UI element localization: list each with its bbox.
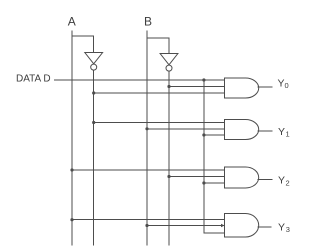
svg-text:A: A bbox=[68, 15, 76, 29]
svg-text:Y: Y bbox=[278, 126, 285, 138]
arrowhead artifact on Y3 middle input bbox=[221, 224, 225, 227]
junction D Y2 bbox=[202, 181, 205, 184]
wire B tap to Y3 bbox=[147, 225, 225, 227]
wire Y3 output bbox=[258, 226, 272, 228]
wire Y2 output bbox=[258, 178, 273, 180]
svg-text:2: 2 bbox=[286, 178, 290, 187]
wire A-bar tap to Y0 bbox=[94, 92, 225, 94]
wire A tap to Y2 bbox=[72, 169, 225, 171]
junction D tap bbox=[202, 78, 205, 81]
node Y2 label bbox=[278, 175, 290, 188]
svg-text:B: B bbox=[144, 15, 152, 29]
wire A tap to Y3 bbox=[72, 219, 225, 221]
wire A branch to inverter input bbox=[72, 36, 94, 53]
wire B vertical bbox=[146, 31, 148, 246]
svg-text:1: 1 bbox=[286, 129, 290, 138]
and-gate U3 (Y0) bbox=[225, 78, 259, 98]
inverter U1 (NOT gate on A) bbox=[85, 53, 103, 71]
wire A-bar tap to Y1 bbox=[94, 122, 225, 124]
wire B branch to inverter input bbox=[147, 38, 169, 54]
junction D Y1 bbox=[202, 133, 205, 136]
node Y0 label bbox=[278, 78, 289, 90]
wire B-bar tap to Y0 bbox=[169, 86, 225, 88]
wire B tap to Y1 bbox=[147, 128, 225, 130]
wire D tap to Y1 bbox=[204, 134, 225, 136]
junction A-bar Y1 bbox=[92, 121, 95, 124]
junction B-bar Y0 bbox=[167, 85, 170, 88]
wire D vertical distribution bbox=[204, 80, 225, 233]
wire D tap to Y2 bbox=[204, 182, 225, 184]
wire A vertical bbox=[71, 31, 73, 246]
junction A Y2 bbox=[70, 168, 73, 171]
node Y1 label bbox=[278, 126, 290, 138]
wire Y0 output bbox=[258, 86, 273, 88]
junction B Y3 bbox=[145, 224, 148, 227]
junction A-bar Y0 bbox=[92, 91, 95, 94]
svg-text:0: 0 bbox=[285, 81, 289, 90]
junction B-bar Y2 bbox=[167, 175, 170, 178]
junction B Y1 bbox=[145, 127, 148, 130]
wire B-bar vertical bbox=[168, 71, 170, 245]
svg-text:Y: Y bbox=[278, 175, 285, 187]
and-gate U5 (Y2) bbox=[225, 167, 259, 188]
svg-text:DATA D: DATA D bbox=[16, 74, 51, 85]
wire DATA D horizontal bbox=[54, 79, 225, 81]
svg-text:Y: Y bbox=[278, 222, 285, 234]
junction A Y3 bbox=[70, 218, 73, 221]
wire B-bar tap to Y2 bbox=[169, 176, 225, 178]
wire Y1 output bbox=[258, 130, 273, 132]
wire A-bar vertical bbox=[93, 70, 95, 245]
and-gate U4 (Y1) bbox=[225, 120, 259, 140]
and-gate U6 (Y3) bbox=[225, 214, 259, 238]
svg-text:3: 3 bbox=[286, 225, 290, 234]
inverter U2 (NOT gate on B) bbox=[160, 54, 178, 72]
node Y3 label bbox=[278, 222, 290, 234]
svg-text:Y: Y bbox=[278, 78, 285, 90]
